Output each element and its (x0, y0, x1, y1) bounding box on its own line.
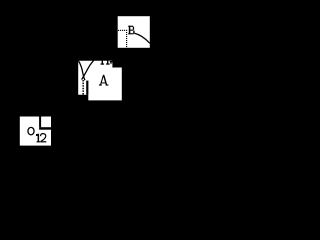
edge backslash into A knot (79, 61, 85, 80)
edge from B (diagonal) (134, 33, 150, 43)
node O box (20, 117, 51, 146)
T mark at A notch (110, 61, 113, 63)
label A glyph (99, 75, 109, 86)
label 12 digit 1 (36, 134, 40, 143)
O tab bottom bar (39, 127, 51, 130)
node B box (118, 16, 150, 48)
label 11 stem 2 (107, 60, 108, 63)
label O glyph (28, 127, 34, 135)
node A box (union outline with top-right notch and lower-left step) (78, 61, 122, 101)
dotted edge under A knot (vertical dots) (82, 80, 84, 95)
O tab left border (39, 117, 41, 128)
label 11 clipped (stem 1) (102, 60, 103, 63)
label 11 serif 1 (101, 63, 105, 64)
label B glyph (128, 26, 134, 35)
edge slash into A knot (82, 60, 94, 79)
label 12 digit 2 (40, 134, 46, 143)
dotted edge under B (vertical dots) (126, 32, 127, 47)
seam line left of A (86, 81, 88, 95)
label 11 serif 2 (106, 63, 110, 64)
dotted edge into B (horizontal dots) (118, 30, 127, 31)
